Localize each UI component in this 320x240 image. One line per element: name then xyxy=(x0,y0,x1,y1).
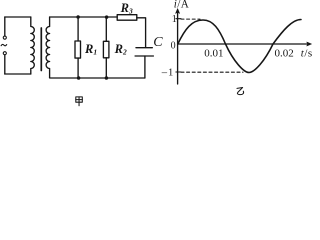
y-axis of graph xyxy=(177,12,179,85)
label 甲 (figure A caption) xyxy=(76,97,83,106)
resistor R1 lead to bottom rail xyxy=(77,58,79,78)
resistor R2 lead from top rail xyxy=(105,17,107,41)
transformer primary coil xyxy=(31,17,35,74)
capacitor C xyxy=(136,47,152,49)
svg-text:i/A: i/A xyxy=(174,0,189,11)
wire: secondary bottom rail xyxy=(50,77,145,79)
tick at +1 xyxy=(176,18,181,20)
dashed line at -1 level xyxy=(181,71,243,73)
wire: capacitor to bottom rail xyxy=(144,56,146,78)
svg-text:t/s: t/s xyxy=(301,48,313,60)
svg-text:R3: R3 xyxy=(120,1,133,16)
svg-text:R2: R2 xyxy=(114,42,127,57)
junction dot above R2 xyxy=(105,15,109,19)
junction dot below R1 xyxy=(77,76,81,80)
svg-text:1: 1 xyxy=(172,14,177,25)
svg-text:0.02: 0.02 xyxy=(275,47,294,59)
junction dot above R1 xyxy=(76,15,80,19)
y-axis arrowhead xyxy=(176,9,180,14)
wire: secondary top rail xyxy=(50,16,118,18)
svg-text:R1: R1 xyxy=(84,42,97,57)
wire: source loop top xyxy=(5,16,31,18)
svg-text:0: 0 xyxy=(171,40,176,51)
svg-text:–1: –1 xyxy=(161,67,174,78)
wire: source loop left upper segment xyxy=(4,17,6,36)
transformer secondary coil xyxy=(46,17,50,78)
resistor R2 lead to bottom rail xyxy=(105,58,107,78)
svg-text:C: C xyxy=(153,35,163,50)
wire: R3 to top-right corner xyxy=(137,18,146,48)
junction dot below R2 xyxy=(105,76,109,80)
resistor R3 xyxy=(117,15,137,21)
x-axis arrowhead xyxy=(307,42,312,46)
terminal: lower circle of AC source xyxy=(3,52,6,55)
transformer core xyxy=(40,28,42,71)
dashed line at +1 level xyxy=(181,18,200,20)
x-axis of graph xyxy=(178,43,309,45)
resistor R1 lead from top rail xyxy=(77,17,79,41)
tick at -1 xyxy=(176,71,181,73)
wire: source loop bottom xyxy=(5,73,31,75)
resistor R2 xyxy=(103,41,109,58)
svg-text:0.01: 0.01 xyxy=(204,47,223,59)
terminal: upper circle of AC source xyxy=(3,36,6,39)
sine curve of current xyxy=(178,20,301,73)
label 乙 (figure B caption) xyxy=(237,88,244,95)
AC source tilde symbol xyxy=(1,44,7,45)
resistor R1 xyxy=(75,41,81,58)
wire: source loop left lower segment xyxy=(4,55,6,74)
